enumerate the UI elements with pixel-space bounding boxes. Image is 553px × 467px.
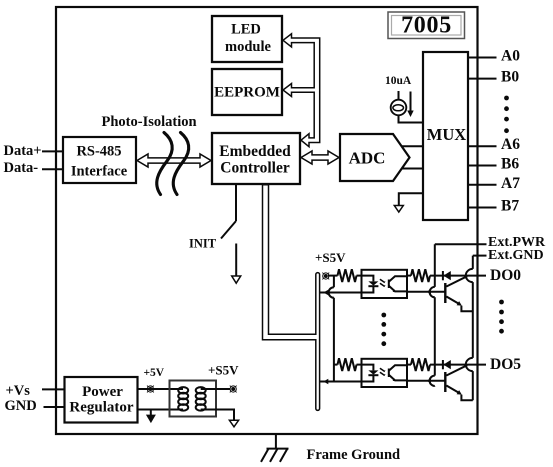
transistor Q (DO0) bbox=[445, 276, 473, 311]
svg-text:7005: 7005 bbox=[401, 13, 452, 39]
analog ground wire below ADC bbox=[399, 193, 424, 205]
svg-text:ADC: ADC bbox=[349, 149, 386, 168]
module case border bbox=[56, 7, 478, 434]
svg-text:GND: GND bbox=[5, 398, 37, 414]
MUX ellipsis dots bbox=[504, 96, 509, 134]
DO0 output line with diode bbox=[430, 275, 486, 277]
arrow on base wire DO5 bbox=[427, 378, 432, 383]
+5V terminal dot bbox=[147, 386, 154, 393]
RS-485 interface box bbox=[63, 137, 136, 183]
svg-text:B0: B0 bbox=[501, 69, 519, 86]
base wire DO5 bbox=[407, 380, 445, 382]
ADC block bbox=[340, 134, 410, 181]
svg-text:INIT: INIT bbox=[189, 237, 217, 251]
INIT arrow head (open) bbox=[232, 276, 241, 283]
current source top stub bbox=[398, 91, 400, 100]
Ext.PWR rail bbox=[430, 244, 435, 386]
controller to ADC double arrow bbox=[301, 151, 339, 164]
current direction arrow bbox=[410, 92, 412, 112]
svg-text:module: module bbox=[225, 39, 271, 55]
svg-text:DO0: DO0 bbox=[490, 267, 521, 284]
svg-text:+S5V: +S5V bbox=[208, 363, 239, 378]
bus from controller to DO isolated rail bbox=[263, 185, 320, 411]
MUX pin wire B6 bbox=[468, 165, 497, 167]
svg-text:Data-: Data- bbox=[4, 160, 39, 176]
return arrow into rail DO5 bbox=[323, 379, 328, 385]
bus tree to LED module, EEPROM and controller bbox=[283, 34, 320, 147]
svg-text:+Vs: +Vs bbox=[6, 383, 31, 399]
LED return wire DO5 to rail bbox=[320, 381, 362, 383]
+S5V feed wire DO0 bbox=[328, 275, 338, 277]
svg-text:DO5: DO5 bbox=[490, 356, 521, 373]
svg-text:LED: LED bbox=[231, 22, 261, 38]
svg-text:Controller: Controller bbox=[220, 160, 290, 177]
Data- wire bbox=[42, 168, 64, 170]
current source circle bbox=[391, 100, 407, 116]
svg-text:A7: A7 bbox=[501, 175, 520, 192]
EEPROM box bbox=[212, 69, 282, 115]
+S5V branch wire down to DO5 bbox=[329, 276, 334, 382]
wire resistor to optocoupler DO0 bbox=[357, 275, 363, 277]
connector arc DO0 bbox=[466, 269, 473, 282]
power regulator box bbox=[65, 377, 138, 423]
svg-text:B7: B7 bbox=[501, 198, 519, 215]
protection diode D (DO0) bbox=[443, 271, 451, 280]
return arrow into rail DO0 bbox=[323, 290, 328, 296]
Data+ wire bbox=[42, 150, 64, 152]
transformer secondary ground wire bbox=[201, 410, 234, 421]
ADC to MUX wire lower bbox=[402, 168, 424, 170]
LED return wire DO0 to rail bbox=[320, 292, 362, 294]
base wire DO0 bbox=[407, 291, 445, 293]
svg-text:Regulator: Regulator bbox=[69, 400, 133, 416]
frame ground stub bbox=[275, 434, 277, 449]
svg-text:+5V: +5V bbox=[144, 367, 165, 379]
MUX pin wire B0 bbox=[468, 78, 497, 80]
Ext.PWR pin wire bbox=[435, 243, 487, 245]
optocoupler U (DO0) bbox=[362, 270, 408, 298]
isolation double arrow RS485 to controller bbox=[137, 154, 211, 167]
wire opto to resistor DO0 bbox=[407, 275, 411, 277]
frame ground symbol bbox=[261, 449, 289, 462]
svg-text:Ext.GND: Ext.GND bbox=[488, 248, 544, 263]
MUX pin wire A7 bbox=[468, 184, 497, 186]
resistor R (DO5 input) bbox=[338, 358, 357, 371]
connector arc DO5 bbox=[466, 358, 473, 371]
DO ellipsis dots bbox=[499, 300, 504, 334]
isolation squiggle 2 bbox=[173, 133, 188, 195]
resistor R (DO0 base) bbox=[411, 269, 430, 282]
MUX pin wire B7 bbox=[468, 207, 497, 209]
isolation squiggle 1 bbox=[157, 133, 172, 195]
regulator ground wire bbox=[138, 409, 184, 411]
MUX pin wire A0 bbox=[468, 57, 497, 59]
+S5V terminal dot (DO section) bbox=[322, 273, 329, 280]
digital ground arrow (solid) bbox=[150, 410, 152, 416]
svg-text:Embedded: Embedded bbox=[219, 143, 291, 160]
embedded controller box bbox=[212, 133, 300, 184]
arrow on base wire DO0 bbox=[427, 289, 432, 294]
DO5 output line with diode bbox=[430, 364, 486, 366]
current source output wire to MUX bbox=[399, 115, 425, 123]
svg-text:B6: B6 bbox=[501, 156, 519, 173]
DC-DC transformer T1 bbox=[170, 381, 217, 417]
svg-text:Photo-Isolation: Photo-Isolation bbox=[102, 114, 197, 130]
transistor Q (DO5) bbox=[445, 365, 473, 400]
svg-text:10uA: 10uA bbox=[385, 75, 412, 87]
svg-text:Data+: Data+ bbox=[4, 143, 42, 159]
current source inner ellipse bbox=[393, 105, 404, 111]
svg-text:MUX: MUX bbox=[427, 125, 466, 144]
+S5V feed wire DO5 bbox=[334, 364, 338, 366]
INIT wire from controller bbox=[235, 185, 237, 221]
ADC to MUX wire upper bbox=[402, 145, 424, 147]
svg-text:RS-485: RS-485 bbox=[76, 144, 121, 160]
+5V wire regulator to transformer bbox=[138, 388, 184, 390]
wire opto to resistor DO5 bbox=[407, 364, 411, 366]
Ext.GND rail bbox=[472, 256, 474, 401]
wire resistor to optocoupler DO5 bbox=[357, 364, 363, 366]
svg-text:A6: A6 bbox=[501, 136, 520, 153]
+Vs wire bbox=[42, 388, 65, 390]
resistor R (DO0 input) bbox=[338, 269, 357, 282]
GND wire bbox=[44, 406, 66, 408]
svg-text:+S5V: +S5V bbox=[315, 250, 346, 265]
resistor R (DO5 base) bbox=[411, 358, 430, 371]
Ext.GND pin wire bbox=[473, 255, 487, 257]
+S5V terminal dot (power) bbox=[230, 386, 237, 393]
INIT switch arm bbox=[221, 221, 236, 239]
svg-text:EEPROM: EEPROM bbox=[214, 84, 280, 100]
optocoupler U (DO5) bbox=[362, 359, 408, 387]
svg-text:A0: A0 bbox=[501, 48, 520, 65]
protection diode D (DO5) bbox=[443, 360, 451, 369]
MUX box bbox=[423, 52, 468, 220]
transformer secondary top wire bbox=[201, 388, 231, 390]
INIT pull arrow wire bbox=[235, 244, 237, 277]
LED module box bbox=[212, 16, 282, 62]
svg-text:Frame Ground: Frame Ground bbox=[307, 447, 401, 463]
svg-text:Interface: Interface bbox=[71, 164, 128, 180]
MUX pin wire A6 bbox=[468, 145, 497, 147]
analog ground arrow (open) bbox=[394, 206, 403, 213]
svg-text:Power: Power bbox=[82, 384, 123, 400]
isolated ground arrow (open) bbox=[229, 420, 238, 427]
7005 label box bbox=[388, 12, 465, 39]
middle ellipsis dots bbox=[381, 313, 386, 347]
